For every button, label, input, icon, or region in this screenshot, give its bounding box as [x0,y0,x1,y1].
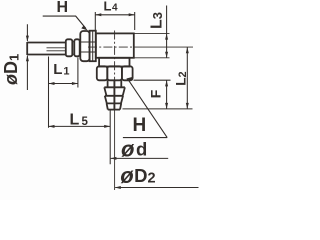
svg-text:L1: L1 [53,61,69,78]
svg-text:H: H [133,115,147,136]
svg-text:H: H [57,0,69,16]
svg-text:L4: L4 [104,0,118,14]
svg-text:øD1: øD1 [1,54,21,85]
svg-text:L5: L5 [70,111,89,128]
svg-text:ød: ød [121,137,147,162]
svg-text:L3: L3 [149,12,166,29]
svg-text:L2: L2 [173,71,189,85]
svg-text:F: F [148,89,164,98]
svg-text:øD2: øD2 [120,163,155,188]
